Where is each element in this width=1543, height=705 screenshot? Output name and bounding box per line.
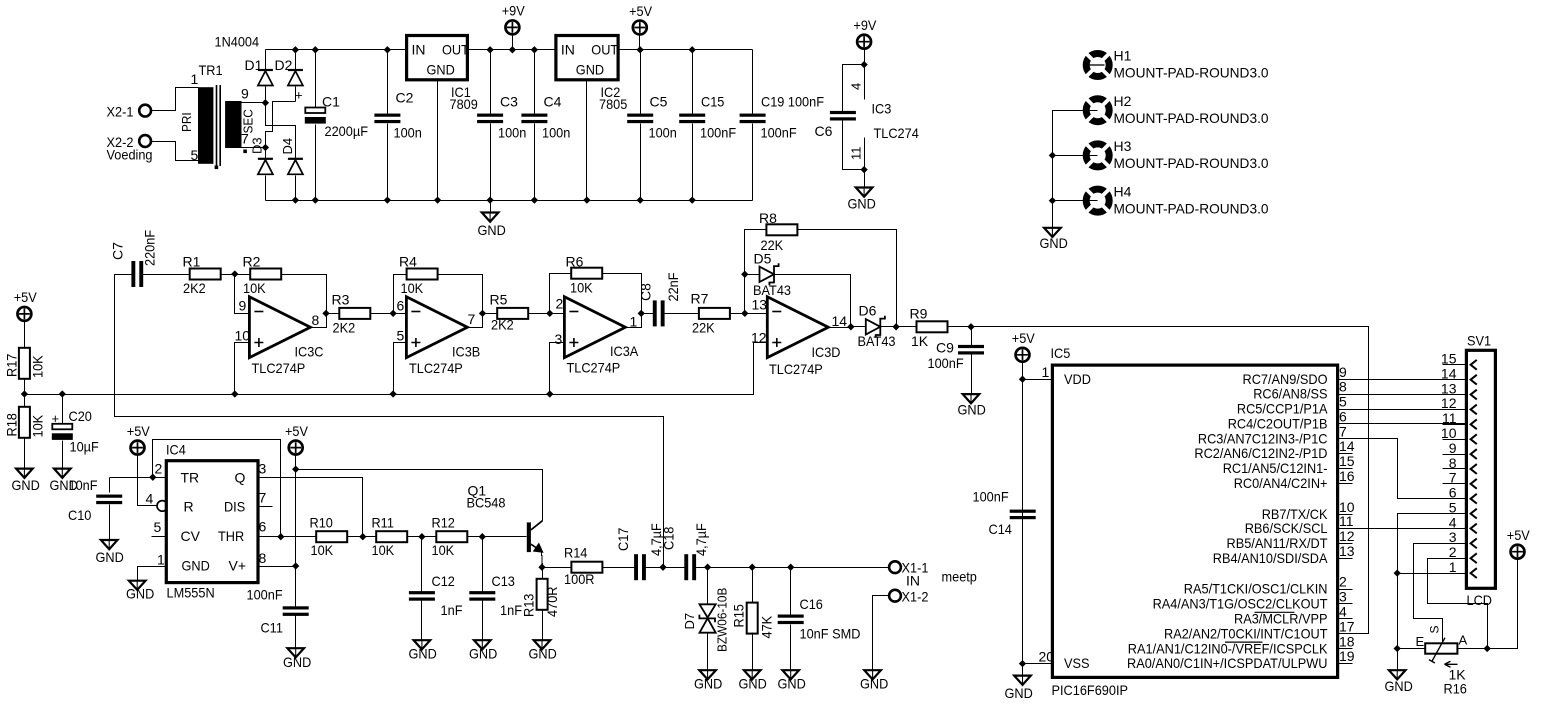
junction IC3 power top [860, 61, 867, 68]
junction IC3A output to C8 [638, 310, 645, 317]
svg-text:5: 5 [191, 147, 199, 163]
wire R3 to IC3B node [371, 313, 394, 315]
svg-text:TLC274: TLC274 [874, 125, 919, 141]
svg-text:S: S [1428, 625, 1442, 633]
svg-text:100n: 100n [498, 125, 526, 141]
wire IC1 GND pin to ground rail [437, 80, 439, 201]
svg-text:LM555N: LM555N [167, 585, 215, 601]
svg-text:100R: 100R [564, 571, 595, 587]
ground X1-2 [864, 670, 881, 679]
wire R5 to IC3A node [528, 313, 550, 315]
ground C20 [54, 469, 71, 478]
svg-text:IN: IN [906, 573, 920, 589]
svg-text:+5V: +5V [1012, 330, 1036, 346]
svg-text:D5: D5 [754, 251, 772, 267]
svg-text:10K: 10K [243, 280, 266, 296]
svg-text:RA4/AN3/T1G/OSC2/CLKOUT: RA4/AN3/T1G/OSC2/CLKOUT [1153, 596, 1328, 612]
junction C13 node [479, 533, 486, 540]
svg-text:8: 8 [1339, 379, 1347, 395]
svg-text:GND: GND [848, 196, 876, 212]
svg-text:GND: GND [12, 477, 40, 493]
supply +9V top [505, 20, 519, 34]
svg-text:9: 9 [241, 86, 249, 102]
svg-text:MOUNT-PAD-ROUND3.0: MOUNT-PAD-ROUND3.0 [1114, 155, 1269, 171]
svg-text:1: 1 [157, 552, 165, 568]
svg-text:5: 5 [1339, 394, 1347, 410]
svg-text:11: 11 [849, 147, 864, 161]
svg-text:10K: 10K [372, 542, 395, 558]
svg-text:3: 3 [555, 331, 563, 347]
junction IC3 power bottom [860, 166, 867, 173]
svg-text:100n: 100n [542, 125, 570, 141]
svg-text:C7: C7 [110, 242, 126, 260]
ground IC5 [1014, 676, 1031, 685]
ground R13 [534, 640, 551, 649]
svg-text:10K: 10K [432, 542, 455, 558]
svg-text:RC0/AN4/C2IN+: RC0/AN4/C2IN+ [1234, 475, 1328, 491]
svg-text:R17: R17 [3, 353, 19, 377]
wire node to IC3D inverting input pin 13 [745, 313, 768, 315]
wire GND pin 1 to ground [138, 567, 167, 581]
svg-text:MOUNT-PAD-ROUND3.0: MOUNT-PAD-ROUND3.0 [1114, 65, 1269, 81]
ground IC4 [129, 581, 146, 590]
wire Q output pin 3 [259, 478, 363, 537]
svg-text:R: R [184, 499, 194, 515]
svg-text:BAT43: BAT43 [858, 333, 896, 349]
wire secondary pin 7 to bridge node [242, 147, 266, 149]
op-amp IC3D [767, 297, 828, 358]
svg-text:H1: H1 [1114, 48, 1132, 64]
wire D6 to R9 [881, 326, 917, 328]
wire C18 to X1-1 [696, 567, 889, 569]
svg-text:TR: TR [181, 470, 200, 486]
wire SV1 pin 3 to R16 wiper [1414, 544, 1467, 644]
wire R1 to node [221, 274, 235, 276]
svg-text:IC4: IC4 [166, 442, 186, 458]
svg-text:1: 1 [191, 71, 199, 87]
svg-text:C5: C5 [650, 94, 668, 110]
junction Q feedback node [359, 533, 366, 540]
svg-text:R14: R14 [564, 545, 588, 561]
supply +9V for IC3 [857, 35, 871, 49]
overline VREF [1225, 641, 1263, 643]
svg-text:+9V: +9V [853, 17, 877, 33]
junction VSS [1019, 660, 1026, 667]
junction feedback tap C17/C18 [659, 564, 666, 571]
wire IC3D output [829, 327, 851, 329]
svg-text:C15: C15 [701, 94, 725, 110]
junction C16 tap [787, 564, 794, 571]
svg-text:1: 1 [1449, 559, 1457, 575]
svg-text:15: 15 [1339, 453, 1355, 469]
svg-text:RB6/SCK/SCL: RB6/SCK/SCL [1245, 520, 1328, 536]
junction IC3B output to R5 [479, 310, 486, 317]
wire R16 terminal A to +5V [1458, 648, 1488, 650]
svg-text:2: 2 [155, 461, 163, 477]
svg-text:H4: H4 [1114, 183, 1132, 199]
ground C16 [782, 670, 799, 679]
svg-text:1N4004: 1N4004 [215, 34, 260, 50]
svg-text:4: 4 [1339, 604, 1347, 620]
wire +5V to R17 [24, 321, 26, 349]
svg-text:E: E [1416, 634, 1425, 649]
svg-text:RC4/C2OUT/P1B: RC4/C2OUT/P1B [1228, 415, 1328, 431]
svg-text:C17: C17 [615, 527, 631, 551]
svg-text:X1-2: X1-2 [902, 589, 929, 605]
svg-text:RA0/AN0/C1IN+/ICSPDAT/ULPWU: RA0/AN0/C1IN+/ICSPDAT/ULPWU [1127, 655, 1328, 671]
junction H4 [1049, 197, 1056, 204]
junction +5V collector branch [292, 466, 299, 473]
svg-text:2: 2 [1339, 574, 1347, 590]
wire CV stub pin 5 [152, 536, 167, 538]
mount pad H4 [1086, 189, 1109, 212]
resistor R18 [24, 395, 26, 408]
junction +9V rail [509, 46, 516, 53]
svg-text:100n: 100n [394, 125, 422, 141]
svg-text:12: 12 [1441, 395, 1457, 411]
svg-text:GND: GND [778, 676, 806, 692]
svg-text:10: 10 [235, 328, 251, 344]
svg-text:C19 100nF: C19 100nF [761, 94, 824, 110]
op-amp power pin 4 of IC3 [864, 65, 866, 100]
supply +5V near LCD [1511, 545, 1525, 559]
wire R9 to C9 node [948, 326, 972, 328]
svg-text:100nF: 100nF [761, 125, 797, 141]
svg-text:R4: R4 [399, 254, 417, 270]
wire +9V to IC3 pin 4 [864, 48, 866, 65]
junction D7 tap [704, 564, 711, 571]
svg-text:DIS: DIS [224, 499, 245, 515]
wire SV1 pin 2 to +5V node [1428, 559, 1488, 649]
svg-text:+5V: +5V [629, 3, 653, 19]
svg-text:8: 8 [259, 550, 267, 566]
junction R15 tap [749, 564, 756, 571]
svg-text:GND: GND [694, 676, 722, 692]
ground C10 [101, 540, 118, 549]
svg-text:C18: C18 [660, 526, 676, 550]
wire R7 to IC3D node [730, 313, 745, 315]
svg-text:GND: GND [283, 654, 311, 670]
svg-text:8: 8 [312, 312, 320, 328]
svg-text:H3: H3 [1114, 138, 1132, 154]
svg-text:6: 6 [397, 298, 405, 314]
junction D4 bottom [292, 196, 299, 203]
svg-text:3: 3 [1449, 529, 1457, 545]
svg-text:7: 7 [1339, 423, 1347, 439]
mount pad H1 [1086, 54, 1109, 77]
svg-text:22K: 22K [692, 320, 715, 336]
junction C15 bottom [689, 196, 696, 203]
svg-text:10K: 10K [401, 280, 424, 296]
supply +5V for IC5 [1016, 348, 1030, 362]
svg-text:9: 9 [1449, 440, 1457, 456]
svg-text:GND: GND [739, 676, 767, 692]
svg-text:RA5/T1CKI/OSC1/CLKIN: RA5/T1CKI/OSC1/CLKIN [1184, 581, 1328, 597]
junction bias node R17/R18 [21, 390, 28, 397]
svg-text:IC3: IC3 [872, 101, 892, 117]
wire SV1 pin 1 to ground bus [1398, 573, 1467, 575]
wire +5V to reset pin 4 [138, 454, 157, 506]
svg-text:10K: 10K [311, 542, 334, 558]
junction C4 bottom [531, 196, 538, 203]
junction C2 top [384, 46, 391, 53]
wire +5V stub [639, 35, 641, 50]
wire RC4 to SV1 pin 11 [1338, 423, 1467, 425]
svg-text:VSS: VSS [1064, 655, 1090, 671]
svg-text:TLC274P: TLC274P [252, 360, 306, 376]
wire RC6 to SV1 pin 13 [1338, 394, 1467, 396]
wire +5V down to A node [1488, 559, 1518, 649]
wire IC3A non-inverting input pin 3 [550, 343, 565, 395]
svg-text:19: 19 [1339, 648, 1355, 664]
svg-text:RA1/AN1/C12IN0-/VREF/ICSPCLK: RA1/AN1/C12IN0-/VREF/ICSPCLK [1128, 640, 1328, 656]
svg-text:C8: C8 [638, 283, 654, 301]
wire +5V to V+ pin 8 [295, 454, 297, 567]
svg-text:+5V: +5V [1507, 527, 1531, 543]
svg-text:RA3/MCLR/VPP: RA3/MCLR/VPP [1234, 611, 1328, 627]
svg-text:TLC274P: TLC274P [409, 360, 463, 376]
svg-text:C12: C12 [432, 573, 456, 589]
svg-text:A: A [1459, 633, 1468, 648]
junction bridge AC2 node [262, 144, 269, 151]
junction C3 top [486, 46, 493, 53]
wire RC5 to SV1 pin 12 [1338, 409, 1467, 411]
svg-text:R1: R1 [183, 254, 201, 270]
svg-text:2200µF: 2200µF [325, 123, 369, 139]
svg-text:GND: GND [126, 586, 154, 602]
junction trigger node [149, 474, 156, 481]
wire C7 to R1 [143, 274, 190, 276]
svg-text:4: 4 [1449, 514, 1457, 530]
wire mount pad ground bus [1053, 111, 1098, 228]
svg-text:22nF: 22nF [665, 273, 681, 302]
svg-text:1: 1 [1042, 364, 1050, 380]
junction C1 top [312, 46, 319, 53]
op-amp IC3A [564, 297, 625, 358]
svg-text:PRI: PRI [179, 112, 194, 132]
junction R7/pin13 node [741, 310, 748, 317]
svg-text:IC3B: IC3B [452, 344, 480, 360]
svg-text:GND: GND [96, 549, 124, 565]
svg-text:Voeding: Voeding [107, 147, 153, 163]
ground symbol power rail [490, 201, 492, 213]
wire C10 to trigger node [110, 477, 153, 479]
ground C11 [287, 648, 304, 657]
wire R4 to IC3B output [438, 275, 483, 328]
mount pad H3 [1086, 144, 1109, 167]
svg-text:MOUNT-PAD-ROUND3.0: MOUNT-PAD-ROUND3.0 [1114, 110, 1269, 126]
connector pad X2-1 [139, 105, 151, 117]
svg-text:5: 5 [154, 519, 162, 535]
svg-text:6: 6 [1339, 408, 1347, 424]
svg-text:+: + [295, 88, 303, 103]
svg-text:OUT: OUT [442, 42, 469, 58]
wire R6 to IC3A output [603, 274, 642, 328]
svg-text:C11: C11 [261, 620, 284, 636]
svg-text:1nF: 1nF [500, 602, 522, 618]
svg-text:IC3A: IC3A [610, 343, 639, 359]
svg-text:13: 13 [1339, 543, 1355, 559]
junction R16 ground node [1394, 645, 1401, 652]
svg-text:C4: C4 [544, 94, 562, 110]
svg-text:12: 12 [1339, 528, 1355, 544]
svg-text:+5V: +5V [285, 423, 309, 439]
svg-text:RA2/AN2/T0CKI/INT/C1OUT: RA2/AN2/T0CKI/INT/C1OUT [1164, 625, 1328, 641]
svg-text:RC1/AN5/C12IN1-: RC1/AN5/C12IN1- [1223, 460, 1328, 476]
svg-text:meetp: meetp [942, 569, 978, 585]
svg-text:TLC274P: TLC274P [567, 360, 621, 376]
svg-text:1nF: 1nF [441, 602, 463, 618]
svg-text:R9: R9 [910, 306, 928, 322]
svg-text:TR1: TR1 [199, 62, 223, 78]
svg-text:4: 4 [146, 491, 154, 507]
junction C9 node [967, 323, 974, 330]
junction emitter node [538, 564, 545, 571]
wire secondary pin 9 to bridge node [242, 102, 266, 104]
svg-text:CV: CV [181, 528, 201, 544]
svg-text:IC5: IC5 [1051, 345, 1071, 361]
svg-text:2K2: 2K2 [333, 320, 356, 336]
svg-text:13: 13 [752, 297, 768, 313]
reset pin inversion bubble [157, 501, 168, 512]
svg-text:16: 16 [1339, 468, 1355, 484]
svg-text:RC3/AN7C12IN3-/P1C: RC3/AN7C12IN3-/P1C [1198, 430, 1328, 446]
ground mount pads [1044, 228, 1061, 237]
wire node to IC3C inverting input pin 9 [235, 275, 250, 314]
svg-text:RB4/AN10/SDI/SDA: RB4/AN10/SDI/SDA [1213, 550, 1328, 566]
ground D7 [699, 670, 716, 679]
svg-text:100nF: 100nF [928, 355, 964, 371]
svg-text:IC3C: IC3C [295, 344, 324, 360]
overline MCLR [1255, 611, 1295, 613]
svg-text:BZW06-10B: BZW06-10B [715, 588, 730, 652]
svg-text:GND: GND [427, 62, 455, 78]
supply +5V top [633, 21, 647, 35]
ground C13 [474, 640, 491, 649]
svg-text:5: 5 [397, 328, 405, 344]
junction C4 top [531, 46, 538, 53]
wire +9V stub [512, 35, 514, 50]
junction C20 tap [59, 390, 66, 397]
wire bias rail Vref [25, 343, 768, 395]
svg-text:7809: 7809 [450, 96, 478, 112]
junction bias rail IC3B [389, 390, 396, 397]
junction THR loop [277, 533, 284, 540]
wire AC1 node to D4 cathode [266, 103, 296, 159]
wire bottom ground rail [266, 200, 753, 202]
svg-text:4: 4 [849, 83, 864, 90]
svg-text:D6: D6 [859, 303, 877, 319]
supply +5V left of IC4 [131, 441, 145, 455]
wire V+ pin 8 [259, 566, 296, 568]
wire D2 anode jog to AC2 node [266, 102, 296, 148]
wire +5V to VDD and C14 [1022, 362, 1024, 676]
svg-text:9: 9 [1339, 364, 1347, 380]
junction VDD [1019, 376, 1026, 383]
svg-text:IN: IN [412, 42, 426, 58]
wire DIS stub pin 7 [259, 506, 273, 508]
mount pad H2 [1086, 99, 1109, 122]
wire IC2 GND pin to ground rail [586, 80, 588, 201]
svg-text:X2-1: X2-1 [107, 104, 134, 120]
svg-text:GND: GND [529, 646, 557, 662]
wire node to IC3A inverting input pin 2 [550, 313, 565, 315]
wire H3 stub [1053, 155, 1098, 157]
wire RB6 to SV1 pin 4 [1338, 528, 1467, 530]
op-amp IC3B [406, 297, 467, 358]
connector pad X1-1 [889, 561, 901, 573]
svg-text:+5V: +5V [14, 289, 38, 305]
wire IC3B non-inverting input pin 5 [394, 343, 407, 395]
svg-text:C13: C13 [492, 573, 516, 589]
svg-text:SV1: SV1 [1467, 333, 1491, 349]
junction IC1 GND bottom [434, 196, 441, 203]
svg-text:2: 2 [1449, 544, 1457, 560]
svg-text:R15: R15 [731, 604, 747, 628]
wire C6 branch [843, 65, 865, 114]
svg-text:10K: 10K [570, 280, 593, 296]
wire R14 to C17 [603, 567, 636, 569]
junction C3 bottom / ground symbol tap [486, 196, 493, 203]
svg-text:2: 2 [556, 296, 564, 312]
svg-text:3: 3 [1339, 589, 1347, 605]
svg-text:C3: C3 [500, 94, 518, 110]
svg-text:GND: GND [1005, 685, 1033, 701]
svg-text:C16: C16 [800, 596, 824, 612]
svg-text:TLC274P: TLC274P [769, 361, 823, 377]
svg-text:IN: IN [561, 42, 575, 58]
svg-text:C6: C6 [815, 123, 833, 139]
junction R8 feedback node [892, 323, 899, 330]
wire C7 left to feedback loop [115, 275, 664, 568]
wire R12 to Q1 base [468, 536, 527, 538]
svg-text:H2: H2 [1114, 93, 1132, 109]
svg-text:IC3D: IC3D [812, 344, 841, 360]
wire R11 to R12 [407, 536, 437, 538]
wire VDD pin 1 [1023, 379, 1053, 381]
wire D5 cathode to output node [775, 275, 851, 327]
svg-text:100nF: 100nF [247, 587, 283, 603]
svg-text:GND: GND [1385, 678, 1413, 694]
wire R18 to ground [24, 438, 26, 469]
svg-text:RC5/CCP1/P1A: RC5/CCP1/P1A [1237, 401, 1328, 417]
svg-text:LCD: LCD [1467, 592, 1493, 608]
svg-text:1: 1 [630, 314, 638, 330]
wire IC3D output to PIC RA2 [972, 327, 1369, 634]
svg-text:4,7µF: 4,7µF [693, 523, 709, 556]
svg-text:VDD: VDD [1064, 371, 1091, 387]
svg-text:10K: 10K [30, 355, 46, 378]
svg-text:100n: 100n [649, 125, 677, 141]
svg-text:R10: R10 [310, 515, 334, 531]
wire X1-2 to ground [873, 596, 889, 671]
junction A node [1484, 645, 1491, 652]
junction V+ / C11 [292, 562, 299, 569]
svg-text:+9V: +9V [502, 3, 526, 19]
wire X2-2 to transformer primary pin 5 [152, 142, 199, 161]
ground C12 [414, 640, 431, 649]
wire top +V rail [266, 49, 753, 51]
arrow R16 adjust [1445, 661, 1458, 667]
svg-text:RB5/AN11/RX/DT: RB5/AN11/RX/DT [1227, 535, 1328, 551]
svg-text:R16: R16 [1444, 681, 1468, 697]
svg-text:V+: V+ [229, 558, 247, 574]
svg-text:6: 6 [259, 519, 267, 535]
wire node up to D5 and R8 [745, 230, 767, 314]
ground R15 [744, 670, 761, 679]
svg-text:100nF: 100nF [700, 125, 736, 141]
svg-text:+5V: +5V [127, 423, 151, 439]
